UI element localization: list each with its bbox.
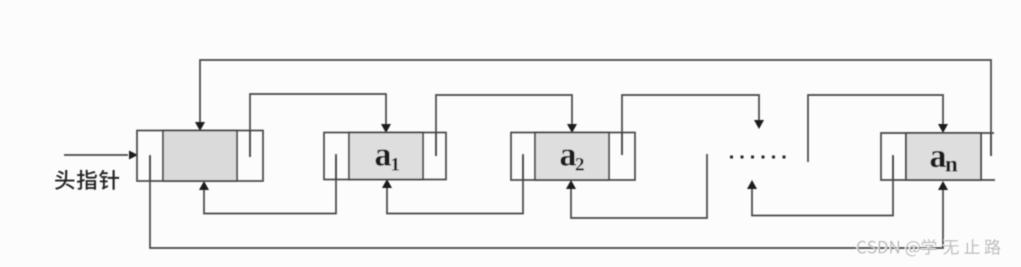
svg-text:a: a	[560, 137, 577, 174]
svg-text:a: a	[375, 137, 392, 174]
svg-text:2: 2	[575, 155, 585, 176]
svg-text:a: a	[930, 138, 947, 175]
svg-text:n: n	[945, 152, 958, 177]
svg-text:1: 1	[391, 155, 401, 176]
